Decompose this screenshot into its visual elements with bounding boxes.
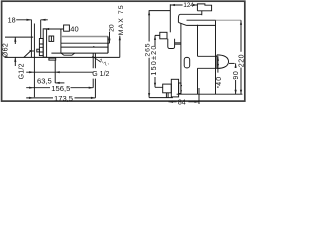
svg-text:G 1/2: G 1/2	[92, 71, 109, 78]
dimension 124	[170, 4, 197, 6]
diverter pull knob	[184, 57, 190, 68]
dimension 220	[216, 19, 242, 21]
union nut inner lines	[39, 44, 43, 52]
inlet pipe	[166, 93, 168, 98]
cartridge dome	[178, 14, 215, 25]
wall line (left view)	[30, 20, 32, 58]
G1/2 bent leader	[24, 51, 34, 58]
border frame	[2, 1, 245, 101]
bottom reference line	[177, 93, 243, 95]
svg-text:90: 90	[233, 71, 240, 80]
dimension 90	[229, 62, 235, 64]
diverter knob under body	[61, 53, 75, 55]
hose outlet tube	[93, 53, 95, 98]
dimension 18 text	[8, 15, 16, 24]
fixture front face	[180, 23, 182, 94]
inlet union body	[171, 79, 178, 97]
inlet union stub lines	[181, 86, 182, 91]
spout front face	[107, 37, 109, 54]
svg-text:150±20: 150±20	[149, 44, 158, 75]
top union U piece	[168, 39, 175, 49]
124 left extension line	[169, 4, 171, 32]
escutcheon disc (side)	[43, 29, 46, 57]
square 40 label	[64, 25, 70, 31]
wall line (right view)	[215, 20, 217, 94]
escutcheon square block	[47, 29, 61, 43]
svg-text:7,: 7,	[103, 60, 111, 68]
dimension 40	[217, 56, 219, 88]
svg-text:220: 220	[238, 54, 245, 67]
tile extension line	[33, 24, 35, 98]
body inner line	[61, 46, 108, 47]
dimension 84	[169, 101, 200, 103]
body seam line	[60, 43, 62, 53]
inlet union step	[179, 83, 181, 94]
svg-text:G1/2: G1/2	[19, 63, 26, 79]
supply pipe lines into body	[175, 43, 181, 44]
cap top line (right view)	[149, 10, 171, 12]
svg-text:20: 20	[108, 24, 115, 32]
dimension 18 lines	[16, 20, 48, 39]
holder neck	[198, 56, 217, 68]
diameter 62 bottom extension line	[5, 56, 120, 58]
small arrow at outlet extension	[55, 82, 64, 84]
escutcheon screw detail	[49, 36, 54, 41]
body back inner line	[197, 25, 199, 95]
top union box	[160, 32, 167, 39]
dimension 20	[108, 24, 115, 32]
svg-text:40: 40	[216, 76, 223, 86]
dimension 156,5	[26, 87, 93, 89]
svg-text:MAX 75: MAX 75	[118, 4, 125, 35]
union stub	[37, 49, 40, 52]
body gray top line	[61, 36, 108, 38]
lever handle	[197, 4, 211, 11]
svg-text:156,5: 156,5	[51, 84, 70, 93]
clip box under escutcheon	[49, 58, 56, 60]
square 40 leader	[44, 28, 63, 30]
union nut	[39, 39, 43, 56]
lever stem	[201, 11, 203, 15]
dimension MAX 75	[118, 4, 125, 35]
svg-text:63,5: 63,5	[37, 77, 52, 86]
holder bullet	[217, 55, 229, 69]
svg-text:18: 18	[8, 15, 16, 24]
svg-text:124: 124	[183, 2, 194, 9]
diameter 62 dimension	[14, 37, 16, 66]
wall escutcheon top edge	[187, 19, 216, 21]
svg-text:84: 84	[178, 100, 186, 107]
svg-text:173,5: 173,5	[54, 94, 73, 103]
thread angle marks	[92, 56, 101, 62]
dimension 173,5	[26, 97, 95, 99]
body top edge	[61, 42, 110, 44]
G 1/2 outlet label	[92, 71, 109, 78]
dimension 63,5	[26, 71, 93, 73]
63,5 extension line	[54, 61, 56, 84]
84 right extension line	[198, 88, 200, 104]
inlet union box	[163, 84, 172, 93]
body bottom edge	[51, 52, 108, 54]
svg-text:40: 40	[70, 25, 78, 34]
diameter 62 top extension line	[5, 36, 33, 38]
dimension 265	[149, 11, 173, 98]
svg-text:Ø62: Ø62	[3, 43, 10, 57]
dimension 150 plus-minus 20	[155, 35, 163, 87]
G1/2 inlet label (rotated)	[19, 63, 26, 79]
